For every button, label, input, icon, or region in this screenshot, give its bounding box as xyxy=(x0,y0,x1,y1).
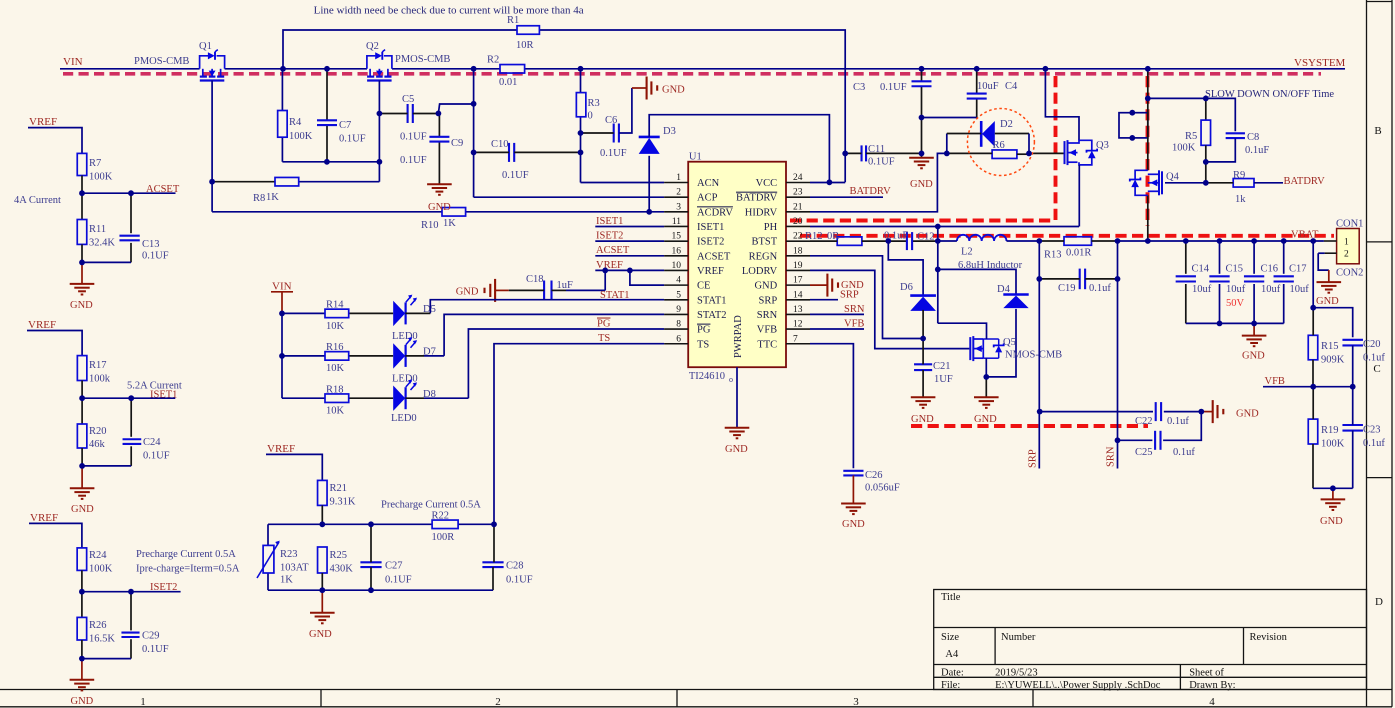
junction at (1205.8,161.9) xyxy=(1203,159,1209,165)
wire C21 leads xyxy=(922,339,924,365)
wire BATDRV pin23 stub xyxy=(810,196,883,198)
junction at (282,313.4) xyxy=(279,311,285,317)
wire R19 leads xyxy=(1312,387,1314,419)
svg-text:VIN: VIN xyxy=(272,281,292,293)
wire D7 cathode to STAT2 xyxy=(405,355,424,357)
svg-text:0.1UF: 0.1UF xyxy=(400,132,427,143)
svg-text:ISET1: ISET1 xyxy=(596,216,623,227)
svg-text:B: B xyxy=(1374,125,1381,137)
capacitor C7 xyxy=(317,119,337,121)
wire Q1 gate lead down xyxy=(211,81,213,212)
svg-text:PG: PG xyxy=(597,319,611,330)
pin 4 CE stub (left) xyxy=(664,284,688,286)
wire VREF divider2 top xyxy=(27,331,82,356)
svg-text:C9: C9 xyxy=(451,138,463,149)
svg-text:9.31K: 9.31K xyxy=(330,497,356,508)
transistor Q5 NMOS-CMB xyxy=(969,337,971,360)
svg-text:SRP: SRP xyxy=(759,295,778,306)
junction at (629.9,270.4) xyxy=(627,268,633,274)
svg-text:4: 4 xyxy=(1209,696,1215,708)
wire CE tie to VREF xyxy=(630,270,664,285)
svg-text:100K: 100K xyxy=(89,172,113,183)
svg-text:A4: A4 xyxy=(945,649,959,660)
wire C10 right lead xyxy=(514,151,580,153)
svg-text:0.056uF: 0.056uF xyxy=(865,483,900,494)
junction at (326.9,161.8) xyxy=(324,159,330,165)
svg-text:ACP: ACP xyxy=(697,193,718,204)
wire LODRV pin19 route to Q5 gate xyxy=(810,270,969,348)
pin 8 PG stub (left) xyxy=(664,328,688,330)
svg-text:GND: GND xyxy=(1242,351,1265,362)
wire HIDRV pin21 route xyxy=(810,153,947,211)
junction at (1332.9,488.3) xyxy=(1330,485,1336,491)
pin 15 ISET2 stub (left) xyxy=(664,240,688,242)
capacitor C10 xyxy=(508,143,510,162)
junction at (1254.1,323.4) xyxy=(1251,321,1257,327)
wire R7 to R11 xyxy=(81,176,83,220)
pin 1 CON1 xyxy=(1324,240,1337,242)
svg-text:10uf: 10uf xyxy=(1192,284,1212,295)
svg-text:15: 15 xyxy=(672,232,682,242)
junction at (282,355.9) xyxy=(279,353,285,359)
pin 19 LODRV stub (right) xyxy=(786,269,810,271)
junction at (1045.4,68.8) xyxy=(1043,66,1049,72)
capacitor C21 xyxy=(914,363,932,365)
svg-text:100K: 100K xyxy=(89,564,113,575)
resistor R18 xyxy=(325,394,349,403)
svg-text:C27: C27 xyxy=(385,561,403,572)
junction at (379.4,161.8) xyxy=(377,159,383,165)
svg-text:C26: C26 xyxy=(865,470,883,481)
wire C9 link up to ACP vertical xyxy=(438,104,473,113)
junction at (322.3,524.3) xyxy=(319,521,325,527)
capacitor C14 xyxy=(1176,275,1196,277)
capacitor C28 xyxy=(482,561,503,563)
junction at (1039.3,278.9) xyxy=(1036,276,1042,282)
wire R13 row / VBAT rail xyxy=(1039,240,1064,242)
resistor R6 xyxy=(992,150,1017,159)
svg-text:o: o xyxy=(729,375,733,384)
wire R4/C7 bottom bus xyxy=(282,161,379,163)
wire TS row and drop to R22 node xyxy=(494,344,664,525)
svg-text:13: 13 xyxy=(793,305,803,315)
junction at (1039.7,411.6) xyxy=(1037,409,1043,415)
svg-text:430K: 430K xyxy=(330,564,354,575)
junction at (580.5,133) xyxy=(578,130,584,136)
resistor R17 xyxy=(77,356,87,381)
wire divider1 bottom xyxy=(81,244,83,262)
resistor R19 xyxy=(1308,419,1318,444)
svg-text:C28: C28 xyxy=(506,561,524,572)
wire PH branch to D4 xyxy=(938,269,1016,294)
svg-text:SRN: SRN xyxy=(844,304,865,315)
capacitor C17 xyxy=(1274,275,1294,277)
svg-text:0.01: 0.01 xyxy=(499,77,517,88)
svg-text:50V: 50V xyxy=(1226,298,1245,309)
svg-text:3: 3 xyxy=(853,696,859,708)
svg-text:VREF: VREF xyxy=(697,266,724,277)
capacitor C27 xyxy=(360,561,381,563)
wire PWRPAD ground lead xyxy=(736,367,738,428)
title block line under Title row xyxy=(934,627,1367,629)
svg-text:1uF: 1uF xyxy=(557,280,574,291)
pin 16 ACSET stub (left) xyxy=(664,255,688,257)
svg-text:Q3: Q3 xyxy=(1096,140,1109,151)
svg-text:R18: R18 xyxy=(326,384,344,395)
wire TTC pin7 route xyxy=(810,344,853,469)
svg-text:R10: R10 xyxy=(421,220,439,231)
svg-text:C13: C13 xyxy=(142,239,160,250)
junction at (82,193.2) xyxy=(79,190,85,196)
capacitor C29 xyxy=(121,632,139,634)
junction at (1352.7,386.7) xyxy=(1350,384,1356,390)
title block divider Number|Revision xyxy=(1243,628,1245,665)
svg-text:TTC: TTC xyxy=(757,339,777,350)
pin 11 ISET1 stub (left) xyxy=(664,225,688,227)
wire D5 cathode to STAT1 xyxy=(405,312,430,314)
junction at (1117.5,440.3) xyxy=(1115,437,1121,443)
wire R25 bottom xyxy=(321,573,323,590)
svg-text:ACSET: ACSET xyxy=(697,251,731,262)
pin 12 VFB stub (right) xyxy=(786,328,810,330)
capacitor C24 xyxy=(123,438,142,440)
wire R14 row xyxy=(282,312,325,314)
sheet border bottom edge xyxy=(0,706,1392,708)
svg-text:File:: File: xyxy=(941,680,960,691)
wire C9 branch xyxy=(438,113,440,136)
svg-text:VREF: VREF xyxy=(28,319,56,331)
svg-text:Date:: Date: xyxy=(941,668,964,679)
svg-text:16.5K: 16.5K xyxy=(89,634,115,645)
capacitor C3 xyxy=(912,80,932,82)
ground symbol cap bank xyxy=(1242,335,1267,337)
Q3 loop and body diode xyxy=(1078,140,1092,150)
svg-text:10uf: 10uf xyxy=(1226,284,1246,295)
resistor R5 xyxy=(1201,120,1211,145)
wire C20 bottom lead xyxy=(1352,345,1354,386)
svg-text:16: 16 xyxy=(672,246,682,256)
wire VIN stub (LED block) xyxy=(271,291,293,293)
title block divider Size|Number xyxy=(994,628,996,665)
resistor R20 xyxy=(77,424,87,448)
wire R16 row xyxy=(282,355,325,357)
svg-text:VREF: VREF xyxy=(29,116,57,128)
wire ISET2 stub xyxy=(595,240,664,242)
svg-text:LED0: LED0 xyxy=(392,374,418,385)
svg-text:2: 2 xyxy=(1344,250,1349,260)
wire C11 right lead to ground xyxy=(866,152,922,154)
svg-text:10uf: 10uf xyxy=(1290,284,1310,295)
wire C3 branch xyxy=(921,69,923,82)
junction at (1117.5,241) xyxy=(1115,238,1121,244)
junction at (81.9,591.7) xyxy=(79,589,85,595)
capacitor C26 xyxy=(843,470,863,472)
svg-text:909K: 909K xyxy=(1321,355,1345,366)
junction at (937.8,226.5) xyxy=(935,224,941,230)
junction at (921.5,117.5) xyxy=(919,115,925,121)
wire precharge mid row xyxy=(268,523,432,525)
svg-text:GND: GND xyxy=(1320,516,1343,527)
pin 1 ACN stub (left) xyxy=(664,182,688,184)
svg-text:C10: C10 xyxy=(491,139,509,150)
junction at (921.5,153.4) xyxy=(919,151,925,157)
pin 6 TS stub (left) xyxy=(664,343,688,345)
svg-text:GND: GND xyxy=(71,504,94,515)
junction at (82.1,465.9) xyxy=(79,463,85,469)
wire SRP pin14 stub xyxy=(810,299,838,301)
svg-text:C: C xyxy=(1373,363,1380,375)
wire VCC pin24 row xyxy=(810,182,845,184)
svg-text:1: 1 xyxy=(140,696,146,708)
junction at (283,68.8) xyxy=(280,66,286,72)
LED D8 xyxy=(393,386,405,411)
wire VFB pin12 stub xyxy=(810,328,864,330)
wire D3 anode down to ACDRV row xyxy=(648,156,650,212)
capacitor C16 xyxy=(1244,275,1264,277)
resistor R13 xyxy=(1064,237,1092,246)
wire ACSET row (divider1) xyxy=(82,192,176,194)
svg-text:CE: CE xyxy=(697,281,710,292)
svg-text:8: 8 xyxy=(676,320,681,330)
svg-text:R26: R26 xyxy=(89,620,107,631)
resistor R21 xyxy=(318,480,328,505)
wire Q5 source down xyxy=(985,358,987,377)
svg-text:SRN: SRN xyxy=(1106,446,1117,467)
wire VREF divider1 top xyxy=(28,128,82,154)
svg-text:10K: 10K xyxy=(326,363,345,374)
junction at (845.2,153.4) xyxy=(842,151,848,157)
ground symbol divider2 xyxy=(81,466,83,488)
crimson dashed highlight along VIN/VSYSTEM rail xyxy=(63,72,1321,76)
junction at (494,524.3) xyxy=(491,521,497,527)
svg-text:10uf: 10uf xyxy=(1261,284,1281,295)
svg-text:R15: R15 xyxy=(1321,341,1339,352)
wire R15/C20 top link xyxy=(1313,308,1353,338)
svg-text:2: 2 xyxy=(495,696,501,708)
svg-text:BATDRV: BATDRV xyxy=(736,193,778,204)
svg-text:14: 14 xyxy=(793,290,803,300)
wire C24 branch xyxy=(130,398,132,437)
wire C25 loop xyxy=(1163,412,1201,441)
svg-text:TI24610: TI24610 xyxy=(689,371,725,382)
svg-text:GND: GND xyxy=(842,519,865,530)
svg-text:C25: C25 xyxy=(1135,447,1153,458)
zone tick right C|D xyxy=(1367,477,1393,479)
junction at (921.5,68.8) xyxy=(919,66,925,72)
svg-text:Ipre-charge=Iterm=0.5A: Ipre-charge=Iterm=0.5A xyxy=(136,564,240,575)
pin 7 TTC stub (right) xyxy=(786,343,810,345)
svg-text:SRP: SRP xyxy=(1028,449,1039,468)
svg-text:9: 9 xyxy=(676,305,681,315)
wire Q5 drain route xyxy=(938,323,987,339)
junction at (1147.8,241) xyxy=(1145,238,1151,244)
svg-text:4: 4 xyxy=(676,276,681,286)
svg-text:1K: 1K xyxy=(443,218,456,229)
svg-text:Revision: Revision xyxy=(1250,632,1288,643)
svg-text:C14: C14 xyxy=(1192,264,1210,275)
wire ACN pin1 row xyxy=(581,182,665,184)
svg-text:L2: L2 xyxy=(961,247,973,258)
wire D6 anode down xyxy=(922,310,924,339)
capacitor C4 xyxy=(967,93,987,95)
svg-text:0.1uf: 0.1uf xyxy=(1363,438,1385,449)
svg-text:6: 6 xyxy=(676,334,681,344)
wire CON1 pin2 to ground xyxy=(1318,252,1324,254)
ground symbol below C26 xyxy=(841,503,866,505)
svg-text:ACN: ACN xyxy=(697,178,720,189)
svg-text:10K: 10K xyxy=(326,321,345,332)
capacitor C8 xyxy=(1226,132,1245,134)
svg-text:Sheet of: Sheet of xyxy=(1189,668,1224,679)
junction at (1147.8,68.8) xyxy=(1145,66,1151,72)
svg-text:0.1UF: 0.1UF xyxy=(142,644,169,655)
junction at (1205.8,182.8) xyxy=(1203,180,1209,186)
capacitor C9 xyxy=(429,136,449,138)
svg-text:VCC: VCC xyxy=(756,178,778,189)
resistor R4 xyxy=(278,111,288,138)
svg-text:0R: 0R xyxy=(827,231,839,242)
svg-text:19: 19 xyxy=(793,261,803,271)
junction at (1039.3,241) xyxy=(1036,238,1042,244)
svg-text:0.1UF: 0.1UF xyxy=(142,251,169,262)
svg-text:R24: R24 xyxy=(89,550,107,561)
svg-text:R16: R16 xyxy=(326,342,344,353)
resistor R8 xyxy=(275,177,299,186)
wire R15 branch from VBAT xyxy=(1312,241,1314,308)
junction at (986.3,376.9) xyxy=(983,374,989,380)
resistor R12 xyxy=(837,237,862,246)
wire VIN rail xyxy=(60,68,200,70)
pin 20 PH stub (right) xyxy=(786,225,810,227)
junction at (1029,153.4) xyxy=(1026,151,1032,157)
svg-text:C16: C16 xyxy=(1261,264,1279,275)
red dashed highlight row B (VBAT rail) xyxy=(800,234,1334,238)
pin 10 VREF stub (left) xyxy=(664,269,688,271)
wire PG row to D8 xyxy=(468,329,664,398)
junction at (937.8,241) xyxy=(935,238,941,244)
wire VIN vertical to LED rows xyxy=(281,313,283,398)
svg-text:GND: GND xyxy=(428,202,451,213)
pin 13 SRN stub (right) xyxy=(786,313,810,315)
potentiometer R23 xyxy=(263,545,274,573)
svg-text:CON2: CON2 xyxy=(1336,268,1363,279)
wire C23 leads xyxy=(1352,387,1354,425)
resistor R16 xyxy=(325,352,349,361)
svg-text:Drawn By:: Drawn By: xyxy=(1189,680,1235,691)
zone tick right B|C xyxy=(1367,241,1393,243)
svg-text:D4: D4 xyxy=(997,284,1011,295)
svg-text:GND: GND xyxy=(70,300,93,311)
pin 2 CON1 xyxy=(1325,252,1337,254)
zone tick bottom 3|4 xyxy=(1032,690,1034,707)
svg-text:0: 0 xyxy=(588,111,593,122)
svg-text:100k: 100k xyxy=(89,374,111,385)
ground symbol divider1 xyxy=(81,262,83,284)
svg-text:TS: TS xyxy=(697,339,709,350)
svg-text:R14: R14 xyxy=(326,300,344,311)
wire REGN pin18 route xyxy=(810,256,923,339)
zone tick bottom 2|3 xyxy=(676,690,678,707)
svg-text:7: 7 xyxy=(793,334,798,344)
sideways ground near C6 xyxy=(646,77,648,100)
svg-text:R23: R23 xyxy=(280,549,298,560)
junction at (1313.2,386.7) xyxy=(1310,384,1316,390)
svg-text:R8: R8 xyxy=(253,193,265,204)
svg-text:STAT2: STAT2 xyxy=(697,310,727,321)
transistor Q2 PMOS-CMB xyxy=(367,56,376,69)
svg-text:C7: C7 xyxy=(339,120,351,131)
svg-text:0.01R: 0.01R xyxy=(1066,248,1091,259)
wire R6 row xyxy=(947,152,992,154)
wire D2/R6 left node up xyxy=(946,134,948,154)
wire C11 left lead xyxy=(845,152,861,154)
resistor R2 xyxy=(500,65,525,74)
wire slow-down top row xyxy=(1148,98,1236,131)
pin 14 SRP stub (right) xyxy=(786,299,810,301)
svg-text:C18: C18 xyxy=(526,274,544,285)
wire R5/C8 bottom node xyxy=(1205,145,1207,183)
resistor R25 xyxy=(318,547,328,573)
wire R5 top lead xyxy=(1205,98,1207,120)
svg-text:20: 20 xyxy=(793,217,803,227)
junction at (1219.5,241) xyxy=(1217,238,1223,244)
svg-text:GND: GND xyxy=(974,414,997,425)
svg-text:21: 21 xyxy=(793,202,803,212)
ground symbol divider3 xyxy=(81,659,83,680)
svg-text:0.1uf: 0.1uf xyxy=(1363,353,1385,364)
svg-text:D: D xyxy=(1375,596,1383,608)
junction at (1132.3,137.9) xyxy=(1129,135,1135,141)
svg-text:VFB: VFB xyxy=(757,325,777,336)
junction at (322.3,590.2) xyxy=(319,587,325,593)
svg-text:ISET2: ISET2 xyxy=(596,231,623,242)
svg-text:TS: TS xyxy=(598,333,610,344)
junction at (1147.8,98.4) xyxy=(1145,96,1151,102)
op-amp U1 TI24610 charger IC body xyxy=(688,162,786,368)
pin 3 ACDRV stub (left) xyxy=(664,211,688,213)
wire R8 row xyxy=(212,181,275,183)
wire C19 leads xyxy=(1039,278,1079,280)
svg-text:VREF: VREF xyxy=(30,512,58,524)
svg-text:1K: 1K xyxy=(280,575,293,586)
svg-text:GND: GND xyxy=(1236,409,1259,420)
wire ISET1 row (divider2) xyxy=(82,397,175,399)
title block line under Size row xyxy=(934,664,1367,666)
svg-text:U1: U1 xyxy=(689,152,702,163)
svg-text:GND: GND xyxy=(456,287,479,298)
svg-text:ACDRV: ACDRV xyxy=(697,207,733,218)
svg-text:PG: PG xyxy=(697,325,711,336)
capacitor C22 xyxy=(1155,402,1157,421)
svg-text:10uF: 10uF xyxy=(977,81,999,92)
svg-text:SRN: SRN xyxy=(757,310,778,321)
capacitor C25 xyxy=(1154,431,1156,450)
svg-text:Size: Size xyxy=(941,632,959,643)
wire C13 branch xyxy=(130,193,132,233)
wire C4 bottom link to C3 xyxy=(922,117,977,119)
svg-text:24: 24 xyxy=(793,173,803,183)
wire C5 right to C9 node xyxy=(413,113,439,115)
svg-text:C4: C4 xyxy=(1005,81,1018,92)
svg-text:PH: PH xyxy=(764,222,778,233)
resistor R7 xyxy=(77,153,87,175)
junction at (1313.2,307.7) xyxy=(1310,305,1316,311)
wire Q2 gate lead down xyxy=(378,81,380,182)
junction at (1219.5,323.4) xyxy=(1217,321,1223,327)
red dashed highlight vertical V2 (through Q4) xyxy=(1146,76,1150,226)
svg-text:BTST: BTST xyxy=(752,237,778,248)
resistor R26 xyxy=(77,617,87,640)
